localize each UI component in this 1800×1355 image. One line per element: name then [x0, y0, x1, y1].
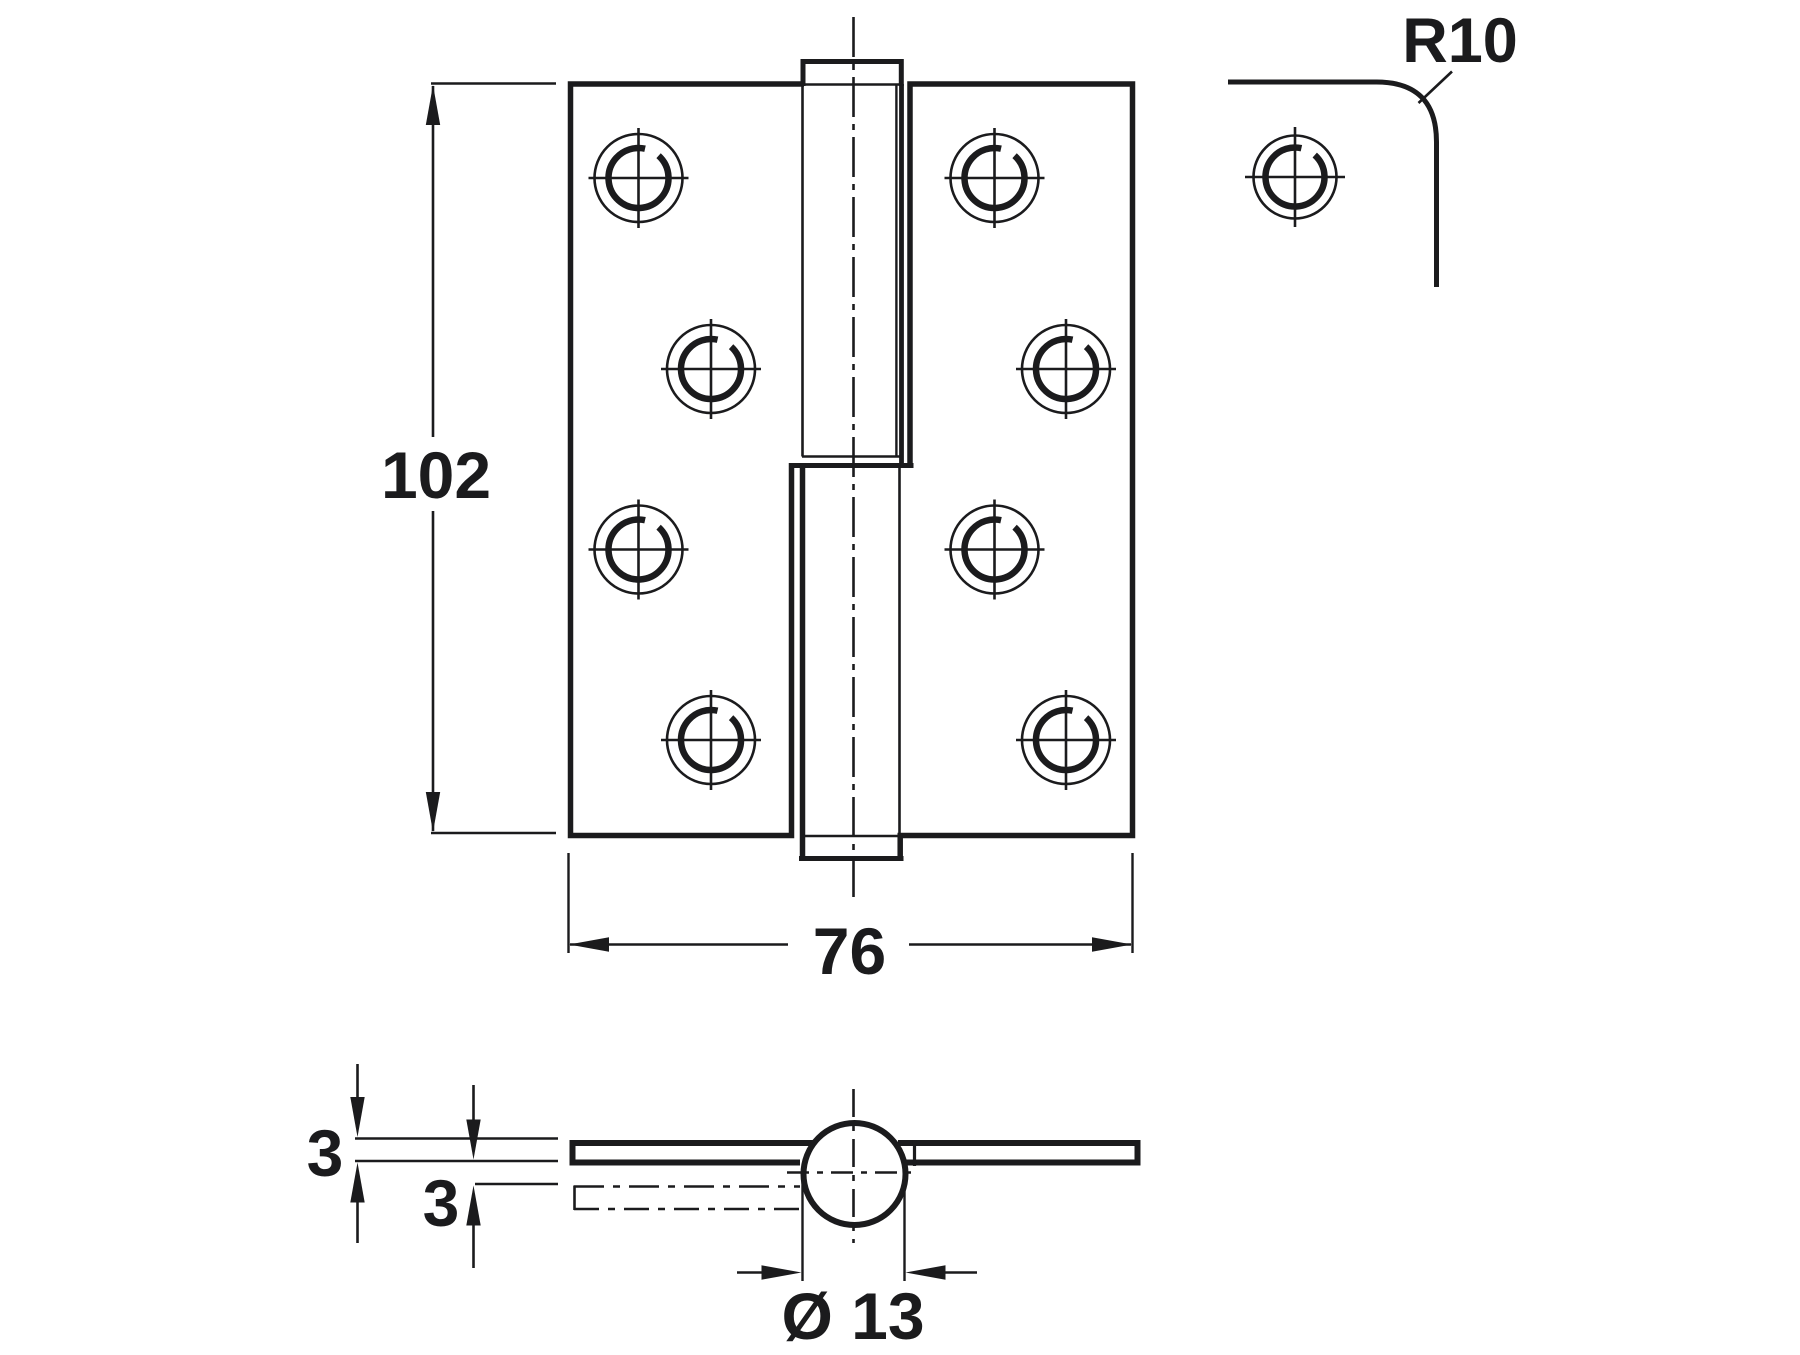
screw hole H6 — [1016, 319, 1116, 419]
lower knuckle tube left edge (thick) — [800, 463, 806, 861]
lower knuckle tube right edge (thin) — [898, 463, 901, 836]
dimension 102: top arrow — [426, 85, 440, 125]
dimension 76: right arrow — [1092, 937, 1132, 951]
right leaf — [898, 84, 1133, 836]
svg-text:R10: R10 — [1402, 6, 1518, 76]
screw hole H9 (detail) — [1245, 127, 1345, 227]
upper knuckle tube right inner edge (thin) — [895, 85, 897, 457]
dimension 3 (lower): up arrow — [472, 1223, 475, 1268]
dimension 76: left arrow — [569, 937, 609, 951]
pin cap bottom thin line — [804, 83, 899, 85]
dimension 102: dimension line upper segment — [432, 86, 435, 437]
dimension 3 (lower): extension line — [475, 1183, 558, 1185]
pin cap (top of knuckle) — [803, 62, 901, 87]
dimension 102: bottom arrow — [426, 792, 440, 832]
screw hole H5 — [945, 128, 1045, 228]
dimension 76: right extension line — [1131, 853, 1133, 953]
dimension 102: top extension line — [431, 82, 556, 84]
dimension 76: dimension line right segment — [909, 943, 1131, 946]
dimension 102: dimension line lower segment — [432, 511, 435, 831]
bottom collar of knuckle — [897, 834, 903, 861]
collar top thin line — [802, 835, 899, 837]
dimension 3 (upper): top extension line — [355, 1137, 558, 1139]
svg-text:Ø 13: Ø 13 — [781, 1279, 924, 1350]
dimension 76: dimension line left segment — [570, 943, 788, 946]
svg-text:3: 3 — [423, 1166, 460, 1240]
dimension 3 (upper): down arrow — [356, 1064, 359, 1100]
screw hole H8 — [1016, 690, 1116, 790]
dimension 3 (upper): bottom extension line — [355, 1160, 558, 1162]
bottom view: vertical centerline — [852, 1089, 855, 1243]
svg-text:3: 3 — [307, 1116, 344, 1190]
left leaf — [571, 84, 805, 836]
screw hole H7 — [945, 500, 1045, 600]
bottom view: hidden leaf left end cap — [573, 1186, 576, 1211]
R10 leader line — [1419, 72, 1453, 104]
joint thick line — [789, 463, 914, 468]
bottom view: upper leaf bar left segment — [573, 1143, 814, 1163]
bottom view: pin circle — [804, 1123, 906, 1225]
bottom view: hidden leaf bottom edge (dashed) — [574, 1208, 800, 1211]
dimension 3 (lower): down arrow — [472, 1085, 475, 1121]
dimension Ø13: left extension line — [801, 1180, 803, 1281]
svg-text:76: 76 — [813, 914, 886, 988]
screw hole H1 — [589, 128, 689, 228]
dimension Ø13: right extension line — [903, 1180, 905, 1281]
R10 detail corner — [1228, 82, 1437, 287]
joint thin line — [802, 455, 900, 457]
screw hole H4 — [661, 690, 761, 790]
svg-text:102: 102 — [381, 438, 491, 512]
dimension 3 (upper): up arrow — [356, 1200, 359, 1243]
bottom view: hidden leaf top edge (dashed) — [574, 1185, 800, 1188]
upper knuckle tube left edge (thin) — [801, 86, 804, 457]
upper knuckle tube right edge (thick) — [899, 84, 904, 467]
bottom view: knuckle/leaf tick — [913, 1140, 916, 1166]
screw hole H2 — [661, 319, 761, 419]
pin centerline (dash-dot) — [852, 17, 855, 897]
bottom view: horizontal centerline — [787, 1171, 916, 1174]
dimension 102: bottom extension line — [431, 832, 556, 834]
bottom view: upper leaf bar right segment — [898, 1143, 1138, 1163]
screw hole H3 — [589, 500, 689, 600]
dimension 76: left extension line — [567, 853, 569, 953]
dimension Ø13: left arrow — [737, 1271, 765, 1274]
dimension Ø13: right arrow — [942, 1271, 977, 1274]
